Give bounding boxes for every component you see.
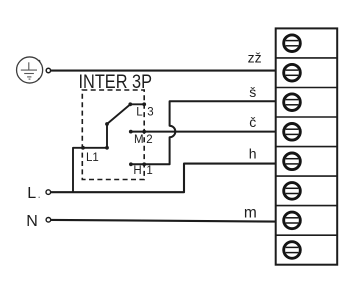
node: contact M (129, 130, 133, 134)
dashed enclosure INTER 3P (82, 90, 144, 180)
wire: L line to terminal h (51, 164, 276, 193)
screw terminal 3 (s) (284, 94, 301, 111)
svg-text:N: N (26, 213, 38, 230)
screw terminal 5 (h) (284, 153, 301, 170)
svg-text:č: č (249, 114, 256, 130)
node: contact L (128, 102, 132, 106)
node: pin 3 (142, 102, 146, 106)
small arc ticks on ground circle (38, 60, 40, 80)
switch arm (wiper) (107, 104, 144, 148)
svg-text:M: M (134, 134, 144, 146)
node: arm bend lower (105, 146, 109, 150)
ground symbol (protective earth in circle) (17, 57, 43, 83)
node: switch pivot L1 (81, 146, 85, 150)
svg-text:1: 1 (146, 165, 152, 177)
svg-text:3: 3 (147, 107, 153, 119)
screw terminal 7 (m) (284, 212, 301, 229)
svg-text:h: h (249, 146, 257, 162)
terminal block outline (276, 28, 338, 264)
wire: switch pin1 up to terminal s (with hop over c wire) (131, 101, 276, 164)
node: arm bend upper (105, 122, 109, 126)
svg-text:H: H (133, 165, 141, 177)
wire: L riser to switch pivot L1 (73, 148, 107, 192)
wire: ground to terminal zz (51, 70, 276, 72)
svg-text:zž: zž (248, 50, 262, 66)
screw terminal 8 (284, 242, 301, 259)
L terminal circle (46, 190, 51, 195)
svg-text:m: m (244, 204, 257, 221)
screw terminal 2 (zz) (284, 64, 301, 81)
svg-text:2: 2 (146, 134, 152, 146)
wire: N to terminal m (51, 220, 276, 222)
node: pin 1 (142, 162, 146, 166)
svg-text:L1: L1 (86, 152, 99, 164)
svg-text:INTER 3P: INTER 3P (79, 72, 153, 93)
svg-text:š: š (249, 84, 256, 100)
node: pin 2 (142, 130, 146, 134)
screw terminal 4 (c) (284, 124, 301, 141)
terminal block dividers (276, 58, 338, 235)
screw terminal 6 (284, 183, 301, 200)
wire: switch pin2 (M) to terminal c (131, 131, 276, 133)
svg-text:L: L (27, 185, 36, 202)
ground terminal circle (46, 68, 50, 72)
node: contact H (129, 162, 133, 166)
N terminal circle (46, 218, 51, 223)
screw terminal 1 (284, 35, 301, 52)
svg-text:L: L (136, 106, 143, 118)
